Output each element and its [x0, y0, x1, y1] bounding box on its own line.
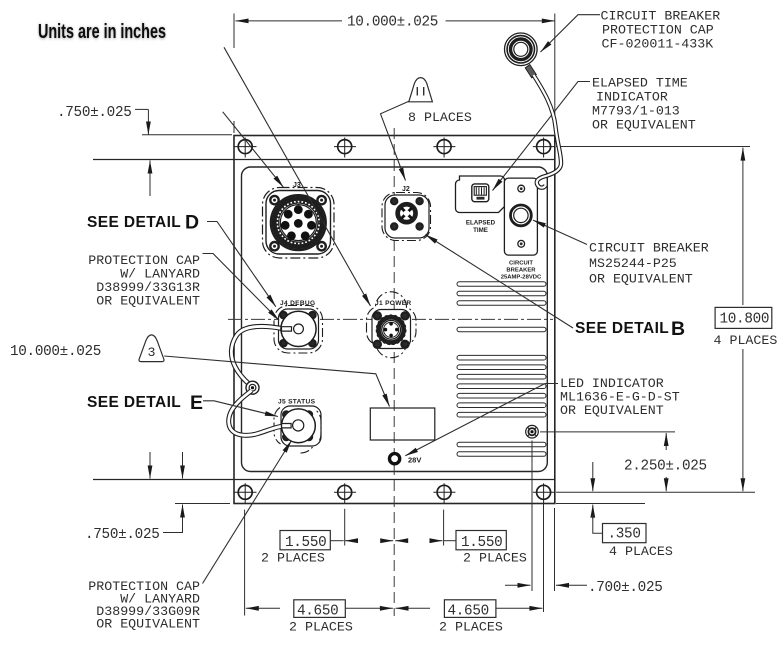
leader CIRCUIT BREAKER MS25244 to breaker: [533, 220, 587, 244]
dim .750 top-left: extension line of panel top edge: [142, 134, 232, 136]
dim 4.650 right: dimension line: [396, 607, 431, 609]
svg-text:SEE DETAIL: SEE DETAIL: [87, 394, 181, 411]
svg-text:E: E: [190, 392, 203, 414]
svg-text:1.550: 1.550: [285, 535, 326, 551]
panel screw bottom right: [526, 425, 539, 438]
svg-text:CIRCUIT: CIRCUIT: [509, 261, 533, 267]
leader SEE DETAIL E to J5: [203, 401, 278, 417]
svg-text:25AMP-28VDC: 25AMP-28VDC: [501, 275, 542, 281]
svg-text:J1 POWER: J1 POWER: [375, 300, 411, 307]
svg-text:28V: 28V: [408, 456, 421, 465]
svg-text:4.650: 4.650: [448, 604, 489, 620]
svg-text:SEE DETAIL: SEE DETAIL: [87, 214, 181, 231]
mounting hole bottom 4: [533, 483, 555, 503]
balloon 11 (8 places): [409, 78, 433, 102]
cap lanyard ferrule: [525, 65, 536, 78]
svg-text:ELAPSED: ELAPSED: [466, 220, 496, 227]
svg-text:OR EQUIVALENT: OR EQUIVALENT: [592, 118, 696, 133]
svg-text:J3: J3: [293, 182, 301, 189]
dim 1.550 right: dimension line: [444, 540, 456, 542]
mounting hole top 3: [433, 138, 455, 158]
svg-text:2 PLACES: 2 PLACES: [289, 620, 353, 635]
dim 1.550 left: dimension line: [330, 540, 343, 542]
leader SEE DETAIL D to J4: [207, 222, 276, 307]
dim .350: arrows and leader: [592, 462, 594, 491]
svg-text:CF-020011-433K: CF-020011-433K: [602, 37, 714, 52]
svg-text:10.000±.025: 10.000±.025: [10, 344, 101, 360]
svg-text:ELAPSED TIME: ELAPSED TIME: [592, 76, 688, 91]
dim .750 top-left: arrows: [147, 109, 149, 134]
circuit breaker plate: [504, 178, 537, 255]
J1 pins: [384, 322, 399, 337]
extension of panel bottom edge right (for .350): [556, 503, 645, 505]
leader LED INDICATOR to led: [405, 384, 558, 456]
svg-text:4.650: 4.650: [297, 604, 338, 620]
dim .700: dimension lines and arrows: [505, 584, 531, 586]
leader SEE DETAIL B to J2: [425, 235, 573, 328]
svg-text:2 PLACES: 2 PLACES: [439, 620, 503, 635]
cap lanyard cord: [534, 75, 562, 188]
svg-text:.750±.025: .750±.025: [57, 105, 132, 121]
mounting hole bottom 3: [433, 483, 455, 503]
dim box 1.550 left: [280, 531, 330, 550]
horizontal datum centerline (dash-dot): [228, 318, 553, 320]
connector J1 POWER: [366, 292, 416, 358]
vertical centerline (dashed): [393, 128, 395, 616]
dim 10.000 top: dimension line: [236, 20, 343, 22]
leader to J1 POWER: [224, 47, 371, 306]
svg-text:B: B: [671, 318, 685, 340]
mounting hole bottom 2: [334, 483, 356, 503]
extension line panel right edge (under lanyard cord): [554, 14, 556, 134]
svg-text:Units are in inches: Units are in inches: [38, 20, 166, 43]
dim 2.250: arrows: [665, 433, 667, 450]
svg-text:10.800: 10.800: [720, 312, 770, 328]
svg-text:OR EQUIVALENT: OR EQUIVALENT: [96, 617, 200, 632]
dim 2.250: extension line from screw: [540, 431, 675, 433]
mounting hole top 2: [334, 138, 356, 158]
elapsed time indicator plate: [456, 176, 505, 213]
svg-text:MS25244-P25: MS25244-P25: [589, 256, 677, 271]
leader ELAPSED TIME INDICATOR to icon: [493, 82, 591, 191]
svg-text:PROTECTION CAP: PROTECTION CAP: [602, 23, 714, 38]
svg-text:OR EQUIVALENT: OR EQUIVALENT: [589, 272, 693, 287]
leader PROTECTION CAP top to J4 cap: [203, 254, 280, 321]
leader CIRCUIT BREAKER PROTECTION CAP to cap: [541, 15, 601, 52]
J5 lanyard tube: [229, 391, 284, 436]
svg-text:10.000±.025: 10.000±.025: [347, 15, 438, 31]
bottom extension lines from holes and screw: [344, 509, 346, 546]
connector J5 STATUS with protection cap: [229, 391, 321, 454]
svg-text:SEE DETAIL: SEE DETAIL: [575, 320, 669, 337]
mounting hole top 1: [235, 138, 257, 158]
connector J3: [263, 182, 335, 258]
placard rectangle: [370, 408, 435, 440]
dim .750 bottom-left: extension of panel bottom edge: [175, 503, 230, 505]
dim 10.000 left: dimension line with arrows: [149, 161, 151, 197]
LED indicator 28V: [390, 454, 422, 465]
balloon 3: [139, 335, 164, 362]
svg-text:TIME: TIME: [473, 227, 488, 234]
connector J2: [382, 186, 431, 241]
svg-text:8 PLACES: 8 PLACES: [408, 110, 472, 125]
svg-text:M7793/1-013: M7793/1-013: [592, 104, 680, 119]
svg-text:3: 3: [148, 345, 156, 360]
dim box 1.550 right: [456, 531, 506, 550]
dim box 10.800: [715, 307, 772, 328]
balloon 3 leader to placard: [164, 356, 389, 407]
dim 4.650 left: dimension line: [246, 607, 280, 609]
svg-text:1.550: 1.550: [461, 535, 502, 551]
svg-text:BREAKER: BREAKER: [506, 268, 536, 274]
svg-text:2 PLACES: 2 PLACES: [261, 551, 325, 566]
J4 lanyard tube: [231, 326, 282, 385]
svg-text:.750±.025: .750±.025: [85, 527, 160, 543]
dim box 4.650 right: [444, 600, 496, 618]
svg-text:D: D: [185, 212, 199, 234]
dim .750 bottom-left: arrows: [182, 452, 184, 479]
dim box .350: [603, 524, 647, 543]
panel outer rectangle: [234, 136, 555, 504]
svg-text:CIRCUIT BREAKER: CIRCUIT BREAKER: [601, 9, 721, 24]
mounting hole top 4: [533, 138, 555, 158]
dim 10.000 top: extension lines: [233, 14, 235, 134]
svg-text:2 PLACES: 2 PLACES: [463, 551, 527, 566]
panel top fold line: [93, 159, 555, 161]
svg-text:CIRCUIT BREAKER: CIRCUIT BREAKER: [589, 241, 709, 256]
vent slots: [457, 282, 546, 457]
mounting hole bottom 1: [235, 483, 257, 503]
dim box 4.650 left: [294, 600, 346, 618]
lanyard anchor ring: [246, 381, 259, 394]
dim 10.800 right: dimension line: [742, 148, 744, 305]
balloon 11 leader to J2: [381, 101, 410, 181]
panel bottom fold line: [93, 479, 555, 481]
svg-text:4 PLACES: 4 PLACES: [609, 544, 673, 559]
leader to J3: [223, 112, 284, 188]
leader PROTECTION CAP bottom to J5 cap: [203, 441, 292, 584]
svg-text:J4 DEBUG: J4 DEBUG: [280, 300, 315, 307]
svg-text:OR EQUIVALENT: OR EQUIVALENT: [560, 403, 664, 418]
elapsed time counter icon: [472, 184, 489, 202]
extension line 10.800 top (under lanyard cord): [556, 146, 750, 148]
svg-text:OR EQUIVALENT: OR EQUIVALENT: [96, 294, 200, 309]
svg-text:J2: J2: [402, 186, 410, 193]
title Units are in inches: [38, 20, 166, 43]
svg-text:2.250±.025: 2.250±.025: [624, 459, 707, 475]
svg-text:INDICATOR: INDICATOR: [596, 90, 668, 105]
circuit breaker protection cap (top): [505, 33, 538, 66]
svg-text:J5 STATUS: J5 STATUS: [278, 399, 316, 406]
svg-text:.350: .350: [608, 527, 641, 543]
svg-text:4 PLACES: 4 PLACES: [714, 333, 778, 348]
panel inner face rounded rect: [242, 167, 548, 472]
svg-text:.700±.025: .700±.025: [588, 580, 663, 596]
J3 pins: [281, 205, 316, 240]
dim 10.800 right: extension lines: [556, 491, 755, 493]
connector J4 DEBUG with protection cap: [231, 300, 322, 386]
